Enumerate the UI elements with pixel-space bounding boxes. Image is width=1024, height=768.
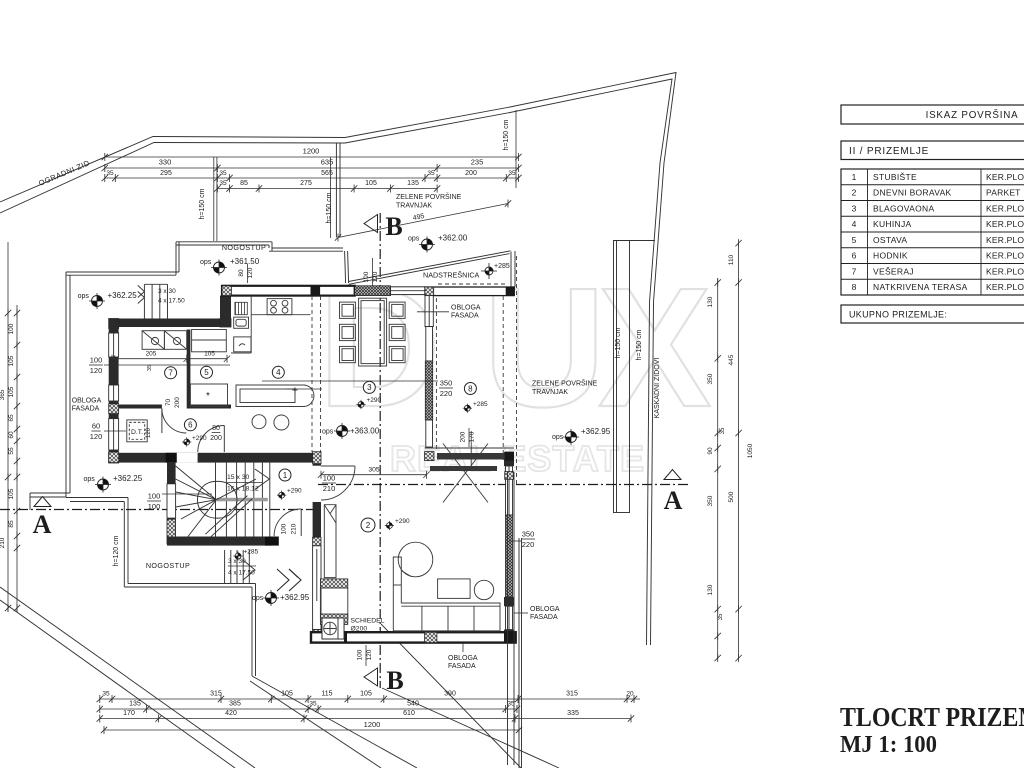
wall west wing bottom / stair top [109,452,320,463]
room circle 5 [201,366,213,378]
dimension chain top line 35-295-35-565-35-200-35 [102,170,522,182]
svg-text:120: 120 [90,366,103,375]
wall living west [313,452,321,640]
svg-text:170: 170 [123,710,135,717]
svg-text:h=150 cm: h=150 cm [636,329,643,360]
label OGRADNI ZID [37,158,91,188]
svg-text:330: 330 [159,158,172,167]
svg-text:1200: 1200 [364,720,381,729]
label NOGOSTUP upper [222,243,266,252]
dimension chain bottom line 3 [97,710,635,723]
svg-text:ops: ops [322,429,334,436]
svg-text:35: 35 [106,170,114,177]
svg-text:+363.00: +363.00 [350,427,380,436]
svg-text:135: 135 [129,701,141,708]
svg-text:220: 220 [522,540,535,549]
svg-text:KER.PLOČ: KER.PLOČ [986,282,1024,292]
washbasin right room 7 [164,331,186,350]
nogostup path lower outline [66,498,256,677]
dimension chain top line 330-635-235 [102,158,522,173]
stove 4 burners [267,299,292,315]
svg-text:2: 2 [852,188,857,198]
kitchen sink unit [234,337,251,352]
dimension chain bottom line 2 [97,701,521,714]
dimension chain top line 1200 [102,147,522,162]
svg-text:ZELENE POVRŠINE: ZELENE POVRŠINE [532,379,598,388]
svg-text:Ø200: Ø200 [351,626,368,633]
retaining wall diagonal D3 [382,688,559,768]
svg-text:100: 100 [148,492,161,501]
spot +290 near room6 door [182,435,207,447]
kitchen appliance box [234,317,249,328]
svg-text:315: 315 [210,691,222,698]
table subheader II PRIZEMLJE [841,141,1024,160]
labels 70/200 rotated door [165,397,181,408]
svg-text:+290: +290 [395,518,410,525]
dimension chain bottom line 1 [97,691,640,704]
svg-text:7: 7 [852,266,857,276]
labels 200/170 rotated terrace door [460,428,476,470]
spot +285 landing [233,549,258,561]
svg-text:210: 210 [323,484,336,493]
svg-text:h=150 cm: h=150 cm [615,327,622,358]
spot height ops +362.25 lower [84,474,143,493]
svg-text:UKUPNO PRIZEMLJE:: UKUPNO PRIZEMLJE: [849,310,947,320]
svg-text:VEŠERAJ: VEŠERAJ [873,266,914,276]
svg-text:55: 55 [8,447,15,455]
svg-text:35: 35 [102,691,110,698]
witness lines x=214-217 [199,157,217,241]
stair landing mid line [216,498,267,502]
wall west wing west side with windows [109,319,119,464]
svg-text:+290: +290 [367,397,382,404]
svg-text:4: 4 [276,368,281,377]
svg-text:+290: +290 [192,435,207,442]
labels 80/120 rotated [238,264,258,286]
svg-text:ops: ops [252,595,264,602]
kitchen counter lines [231,296,311,353]
svg-text:7: 7 [168,369,173,378]
svg-text:60: 60 [92,422,100,431]
coffee table living [438,579,471,599]
svg-text:D.T.: D.T. [131,429,143,436]
svg-text:35: 35 [427,170,435,177]
room circle 4 [272,366,284,378]
svg-text:1: 1 [283,471,288,480]
green area boundary box right (vertical double lines) [614,240,656,513]
svg-text:35: 35 [147,365,153,371]
svg-text:1050: 1050 [747,443,754,458]
room circle 8 [464,383,476,395]
svg-text:350: 350 [440,379,453,388]
svg-text:120: 120 [366,649,373,660]
spot +290 room1 [277,488,302,500]
svg-text:610: 610 [403,710,415,717]
stair break line diagonal [205,496,252,538]
svg-text:200: 200 [210,435,222,442]
island stools [252,415,289,430]
svg-text:h=150 cm: h=150 cm [326,192,333,223]
svg-text:OBLOGA: OBLOGA [530,606,560,613]
svg-text:70: 70 [165,399,172,407]
svg-text:315: 315 [566,691,578,698]
spot height ops +362.25 upper [78,291,138,309]
svg-text:115: 115 [321,691,332,698]
svg-text:390: 390 [444,691,456,698]
svg-text:295: 295 [160,170,172,177]
svg-text:U: U [483,253,606,443]
armchair round living [398,542,433,577]
watermark REAL ESTATE [390,438,645,479]
svg-text:35: 35 [309,701,317,708]
fireplace column [320,505,347,625]
label ZELENE POVRSINE TRAVNJAK right [532,379,598,397]
label KASKADNI ZIDOVI rotated [654,358,661,419]
svg-text:B: B [386,666,403,695]
svg-text:35: 35 [219,170,227,177]
spot height ops +361.50 [200,257,260,276]
stair treads [216,463,270,537]
wall west wing top [109,319,231,329]
stair text 15x30 [227,474,262,493]
terrace door swing X [443,444,488,503]
svg-text:OBLOGA: OBLOGA [448,655,478,662]
svg-text:KER.PLOČ: KER.PLOČ [986,266,1024,276]
retaining wall diagonal D2 [250,681,381,768]
svg-text:110: 110 [728,254,735,265]
svg-text:D: D [318,253,441,443]
svg-text:500: 500 [728,491,735,502]
svg-text:FASADA: FASADA [451,313,479,320]
title TLOCRT PRIZEMLJA [840,702,1024,732]
svg-text:+362.95: +362.95 [280,593,310,602]
labels 100/120 rotated bottom [357,645,374,666]
svg-text:16 x 18.12: 16 x 18.12 [227,486,259,493]
svg-text:65: 65 [8,414,15,422]
table footer UKUPNO PRIZEMLJE [841,305,1024,323]
svg-text:35: 35 [219,180,227,187]
interior dim 205/105 [109,351,230,372]
svg-text:80: 80 [212,425,220,432]
svg-text:2: 2 [366,521,371,530]
svg-text:200: 200 [465,170,477,177]
svg-text:205: 205 [146,351,157,358]
spot +290 kitchen [292,387,297,392]
svg-text:135: 135 [407,180,419,187]
dimension chain right outer [728,239,754,662]
wall connector kitchen to wing [220,296,231,327]
chimney schiedel [322,618,344,639]
sofa L living [393,557,500,631]
svg-text:235: 235 [471,158,484,167]
svg-text:6: 6 [852,251,857,261]
wall stair box bottom [167,537,279,546]
sliding door dashed kitchen-living [312,296,321,452]
svg-text:120: 120 [247,267,254,278]
svg-text:+362.25: +362.25 [108,291,138,300]
svg-text:3: 3 [367,383,372,392]
svg-text:20: 20 [626,691,634,698]
labels 100/210 rotated stair door [281,523,298,534]
dimension chain right inner [707,278,726,662]
label h=120 cm [113,535,120,566]
pouf circle living [474,580,493,599]
door living west arc [321,466,355,500]
svg-text:100: 100 [90,356,103,365]
section marker A left [33,497,52,540]
stair up arrow [216,469,269,500]
svg-text:h=120 cm: h=120 cm [113,535,120,566]
svg-text:100: 100 [148,502,161,511]
watermark DUX [318,253,711,443]
svg-text:305: 305 [368,467,380,474]
room circle 3 [363,381,375,393]
svg-text:8: 8 [852,282,857,292]
svg-text:ops: ops [200,259,212,266]
label NOGOSTUP lower [146,561,190,570]
svg-text:OBLOGA: OBLOGA [72,398,102,405]
dining table [359,298,387,366]
svg-text:PARKET: PARKET [986,188,1021,198]
svg-text:+362.95: +362.95 [581,427,611,436]
svg-text:NOGOSTUP: NOGOSTUP [146,561,190,570]
section line A-A dash-dot [0,485,689,510]
labels 350/220 terrace [262,379,453,399]
svg-text:NOGOSTUP: NOGOSTUP [222,243,266,252]
svg-text:KER.PLOČ: KER.PLOČ [986,235,1024,245]
svg-text:105: 105 [204,351,215,358]
svg-text:4: 4 [852,219,857,229]
svg-text:85: 85 [240,180,248,187]
labels left side 60/120 [90,422,126,442]
svg-text:120: 120 [90,432,103,441]
svg-text:h=150 cm: h=150 cm [503,119,510,150]
wall terrace west side [425,296,433,447]
svg-text:210: 210 [0,537,6,548]
wall living east [504,452,514,643]
section marker B bottom [364,666,404,695]
interior wall rooms 7-5/6 [119,405,231,409]
labels 100/100 stair [147,492,212,512]
svg-text:KASKADNI ZIDOVI: KASKADNI ZIDOVI [654,358,661,419]
svg-text:220: 220 [440,389,453,398]
svg-text:STUBIŠTE: STUBIŠTE [873,172,917,182]
spot height ops +362.95 bottom [252,590,310,606]
svg-text:A: A [664,486,683,515]
svg-text:DNEVNI BORAVAK: DNEVNI BORAVAK [873,188,952,198]
washbasin left room 7 [142,331,164,350]
dimension chain left vertical [0,242,20,612]
dishwasher hatch [235,302,247,314]
svg-text:NADSTREŠNICA: NADSTREŠNICA [423,271,480,280]
labels left side 100/120 [89,356,230,376]
wall terrace top band [425,287,514,296]
svg-text:+285: +285 [244,549,259,556]
svg-text:105: 105 [281,691,293,698]
svg-text:A: A [33,510,52,539]
svg-text:385: 385 [229,701,241,708]
svg-text:TLOCRT PRIZEMLJA: TLOCRT PRIZEMLJA [840,702,1024,732]
room circle 7 [165,367,177,379]
toilet D.T. box [127,420,147,442]
closet room 5 [192,330,227,352]
spot +285 top [481,263,510,279]
svg-text:90: 90 [707,447,714,455]
nogostup path upper outline (double lines) [30,242,343,510]
labels 80/200 door bottom [210,425,222,442]
svg-text:4 x 17.50: 4 x 17.50 [228,570,255,577]
door room7 to hall arc [162,409,187,434]
svg-text:5: 5 [852,235,857,245]
retaining wall stub lower [345,251,349,283]
section marker A right [664,470,683,516]
svg-text:365: 365 [0,389,6,400]
room circle 2 [361,518,375,532]
svg-text:130: 130 [707,296,714,307]
dining chairs left [340,302,356,363]
svg-text:*: * [206,391,210,402]
svg-text:ZELENE POVRŠINE: ZELENE POVRŠINE [396,192,462,201]
spot +285 terrace [463,401,488,413]
table rooms list [841,169,1024,295]
svg-text:15 x 30: 15 x 30 [227,474,250,481]
wall stair box left [167,463,176,544]
table header ISKAZ POVRSINA [841,105,1024,124]
svg-text:105: 105 [8,355,15,366]
svg-text:1200: 1200 [303,147,320,156]
svg-text:KER.PLOČ: KER.PLOČ [986,251,1024,261]
svg-text:KER.PLOČ: KER.PLOČ [986,219,1024,229]
svg-text:100: 100 [8,323,15,334]
svg-text:200: 200 [174,397,181,408]
svg-text:+362.00: +362.00 [438,234,468,243]
kitchen island [236,385,314,407]
retaining wall diagonal D1 [252,676,417,768]
svg-text:420: 420 [225,710,237,717]
svg-text:100: 100 [363,271,370,282]
svg-text:SCHIEDEL: SCHIEDEL [351,618,385,625]
retaining wall diagonal D4 [381,624,521,768]
label OBLOGA FASADA living east [514,606,560,621]
labels h=150 cm right [615,327,643,360]
svg-text:350: 350 [707,373,714,384]
svg-text:+361.50: +361.50 [230,257,260,266]
boiler box room 5 [190,384,227,406]
svg-text:85: 85 [8,520,15,528]
svg-text:ops: ops [78,293,90,300]
canopy slanted edge nadstresnica [349,251,515,287]
spot height ops +362.95 right [552,427,611,445]
retaining wall stub at x 341 (vertical pair) [336,143,340,238]
svg-text:350: 350 [522,530,535,539]
exterior stair top 3x30 [138,284,185,318]
svg-text:105: 105 [365,180,377,187]
svg-text:210: 210 [291,523,298,534]
title MJ 1:100 [840,732,937,758]
spot +290 living [385,518,410,530]
dim 305 living top [318,467,430,479]
svg-text:8: 8 [468,384,473,393]
svg-text:6: 6 [188,421,193,430]
svg-text:+362.25: +362.25 [113,474,143,483]
terrace front sliding door [425,448,514,479]
dimension chain top line 35-85-275-105-135 [214,180,440,193]
svg-text:35: 35 [718,613,724,620]
svg-text:OBLOGA: OBLOGA [451,305,481,312]
svg-text:4 x 17.50: 4 x 17.50 [158,298,185,305]
svg-text:120: 120 [372,271,379,282]
svg-text:105: 105 [8,488,15,499]
svg-text:KER.PLOČ: KER.PLOČ [986,203,1024,213]
svg-text:KER.PLOČ: KER.PLOČ [986,172,1024,182]
svg-text:5: 5 [204,368,209,377]
svg-text:ops: ops [84,476,96,483]
witness line x=331 h=150cm [326,157,333,238]
room circle 6 [184,419,196,431]
terrace dashed canopy outline [436,256,516,485]
labels 100/120 rotated dining window [363,258,379,287]
svg-text:35: 35 [720,427,726,434]
wall living bottom [311,632,516,642]
label OBLOGA FASADA living bottom [448,643,478,670]
svg-text:80: 80 [238,269,245,277]
svg-text:h=150 cm: h=150 cm [199,188,206,219]
retaining wall vertical pair bottom right [508,472,515,765]
svg-text:+285: +285 [473,401,488,408]
stair handrail oval [198,481,238,518]
svg-text:HODNIK: HODNIK [873,251,908,261]
site boundary fence OGRADNI ZID (double line) [0,73,676,646]
svg-text:335: 335 [567,710,579,717]
svg-text:35: 35 [508,170,516,177]
dining chairs right [389,302,405,363]
stair winder lines [176,466,217,537]
495 slanted dimension line [335,200,511,242]
door stair to hall arc [274,509,301,536]
svg-text:ISKAZ POVRŠINA: ISKAZ POVRŠINA [926,110,1019,121]
svg-text:100: 100 [281,523,288,534]
spot height ops +362.00 [408,234,468,253]
svg-text:3 x 30: 3 x 30 [158,288,176,295]
wall line right of living [519,538,522,768]
svg-text:+290: +290 [287,488,302,495]
room circle 1 [279,469,291,481]
svg-text:OSTAVA: OSTAVA [873,235,907,245]
svg-text:275: 275 [300,180,312,187]
svg-text:II / PRIZEMLJE: II / PRIZEMLJE [849,146,929,157]
door exterior room6 with arc [198,426,225,453]
svg-text:60: 60 [8,431,15,439]
svg-text:FASADA: FASADA [72,406,100,413]
exterior stair bottom 3x30 [225,550,256,584]
svg-text:540: 540 [407,701,419,708]
svg-text:TRAVNJAK: TRAVNJAK [532,389,568,396]
label OBLOGA FASADA terrace [417,305,481,320]
door living 100/210 label [322,474,336,494]
label SCHIEDEL 200 [351,618,385,633]
wall jamb west living [313,464,321,466]
svg-text:200: 200 [460,431,467,442]
label ZELENE POVRSINE TRAVNJAK upper [396,192,462,210]
dimension chain bottom line 4 [101,720,522,734]
svg-text:NATKRIVENA TERASA: NATKRIVENA TERASA [873,282,968,292]
section marker B top [364,212,403,241]
spot height ops +363.00 [322,423,380,439]
svg-text:445: 445 [728,354,735,365]
svg-text:BLAGOVAONA: BLAGOVAONA [873,203,934,213]
svg-text:FASADA: FASADA [448,663,476,670]
svg-text:ops: ops [408,236,420,243]
